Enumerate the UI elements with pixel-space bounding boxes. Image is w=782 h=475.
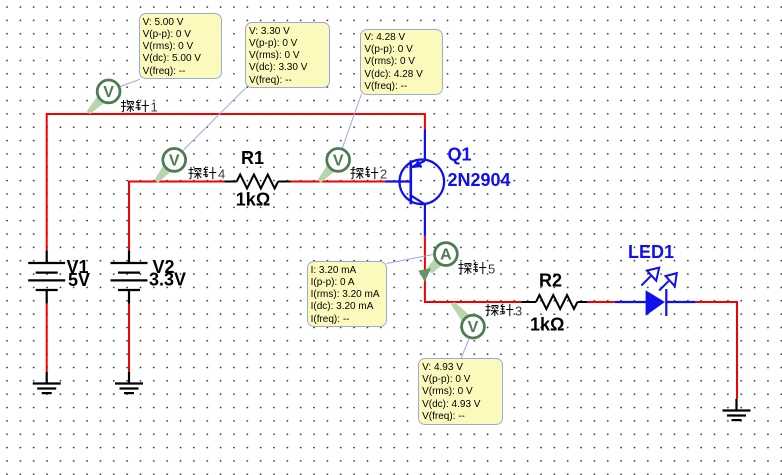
probe 探针3 (V) handle: [451, 302, 469, 321]
ground GND1: [33, 372, 61, 393]
svg-text:V: V: [468, 319, 479, 336]
svg-text:5: 5: [488, 262, 495, 277]
svg-text:1kΩ: 1kΩ: [530, 315, 564, 335]
probe 探针4 (V) circle: [163, 149, 186, 172]
svg-text:V: V: [169, 152, 180, 169]
LED1 emission arrows: [641, 268, 676, 291]
wire net5V: V1 top to Q1 emitter: [47, 114, 425, 250]
wire net3.3V: V2 top to R1 left: [129, 182, 224, 251]
transistor Q1 2N2904: [385, 130, 444, 236]
Q1 emitter arrow (PNP): [413, 160, 423, 168]
tooltip probe2: [360, 29, 443, 95]
probe 探针2 (V) circle: [327, 149, 350, 172]
callout probe5: [387, 255, 434, 264]
callout probe3: [461, 339, 469, 359]
svg-text:1: 1: [151, 100, 158, 115]
resistor R1: [224, 175, 290, 189]
dc source V1: [28, 250, 65, 303]
svg-text:5V: 5V: [68, 270, 90, 290]
probe 探针5 circle: [435, 243, 458, 266]
wire LED1 to ground right: [696, 302, 737, 399]
resistor R2: [521, 295, 587, 309]
tooltip probe5: [307, 261, 388, 327]
svg-text:R1: R1: [241, 148, 264, 168]
probe 探针3 (V) circle: [462, 315, 485, 338]
dc source V2: [111, 250, 148, 303]
svg-text:LED1: LED1: [628, 242, 674, 262]
ground GND3: [723, 399, 751, 420]
svg-text:2: 2: [380, 167, 387, 182]
svg-text:2N2904: 2N2904: [448, 170, 511, 190]
svg-text:R2: R2: [539, 271, 562, 291]
wire V1 bottom to ground: [46, 304, 48, 372]
probe 探针2 (V) handle: [318, 165, 335, 183]
wire R1 right to Q1 base: [291, 181, 386, 183]
wire V2 bottom to ground: [128, 304, 130, 372]
svg-text:1kΩ: 1kΩ: [236, 190, 270, 210]
probe 探针4 (V) handle: [155, 165, 171, 182]
callout probe4: [183, 88, 246, 151]
ground GND2: [115, 372, 143, 393]
probe 探针5 (A) arrow: [427, 259, 442, 274]
probe 探针1 (V) handle: [87, 96, 105, 114]
callout probe2: [342, 94, 362, 149]
svg-text:V: V: [103, 84, 114, 101]
svg-text:V: V: [333, 152, 344, 169]
svg-text:Q1: Q1: [448, 145, 472, 165]
wire R2 right to LED1: [587, 301, 614, 303]
svg-text:3: 3: [515, 304, 522, 319]
tooltip probe4: [245, 22, 330, 88]
label 探针3: [486, 304, 523, 319]
label 探针5: [459, 262, 496, 277]
label 探针2: [351, 167, 388, 182]
callout probe1: [119, 79, 140, 87]
label 探针4: [189, 167, 226, 182]
label 探针1: [121, 100, 158, 115]
LED LED1: [615, 289, 696, 316]
svg-text:4: 4: [218, 167, 225, 182]
svg-text:A: A: [440, 247, 452, 264]
wire Q1 collector to R2: [425, 236, 521, 302]
probe 探针1 (V) circle: [97, 80, 120, 103]
tooltip probe1: [139, 13, 222, 79]
svg-text:3.3V: 3.3V: [149, 270, 186, 290]
tooltip probe3: [418, 358, 503, 425]
